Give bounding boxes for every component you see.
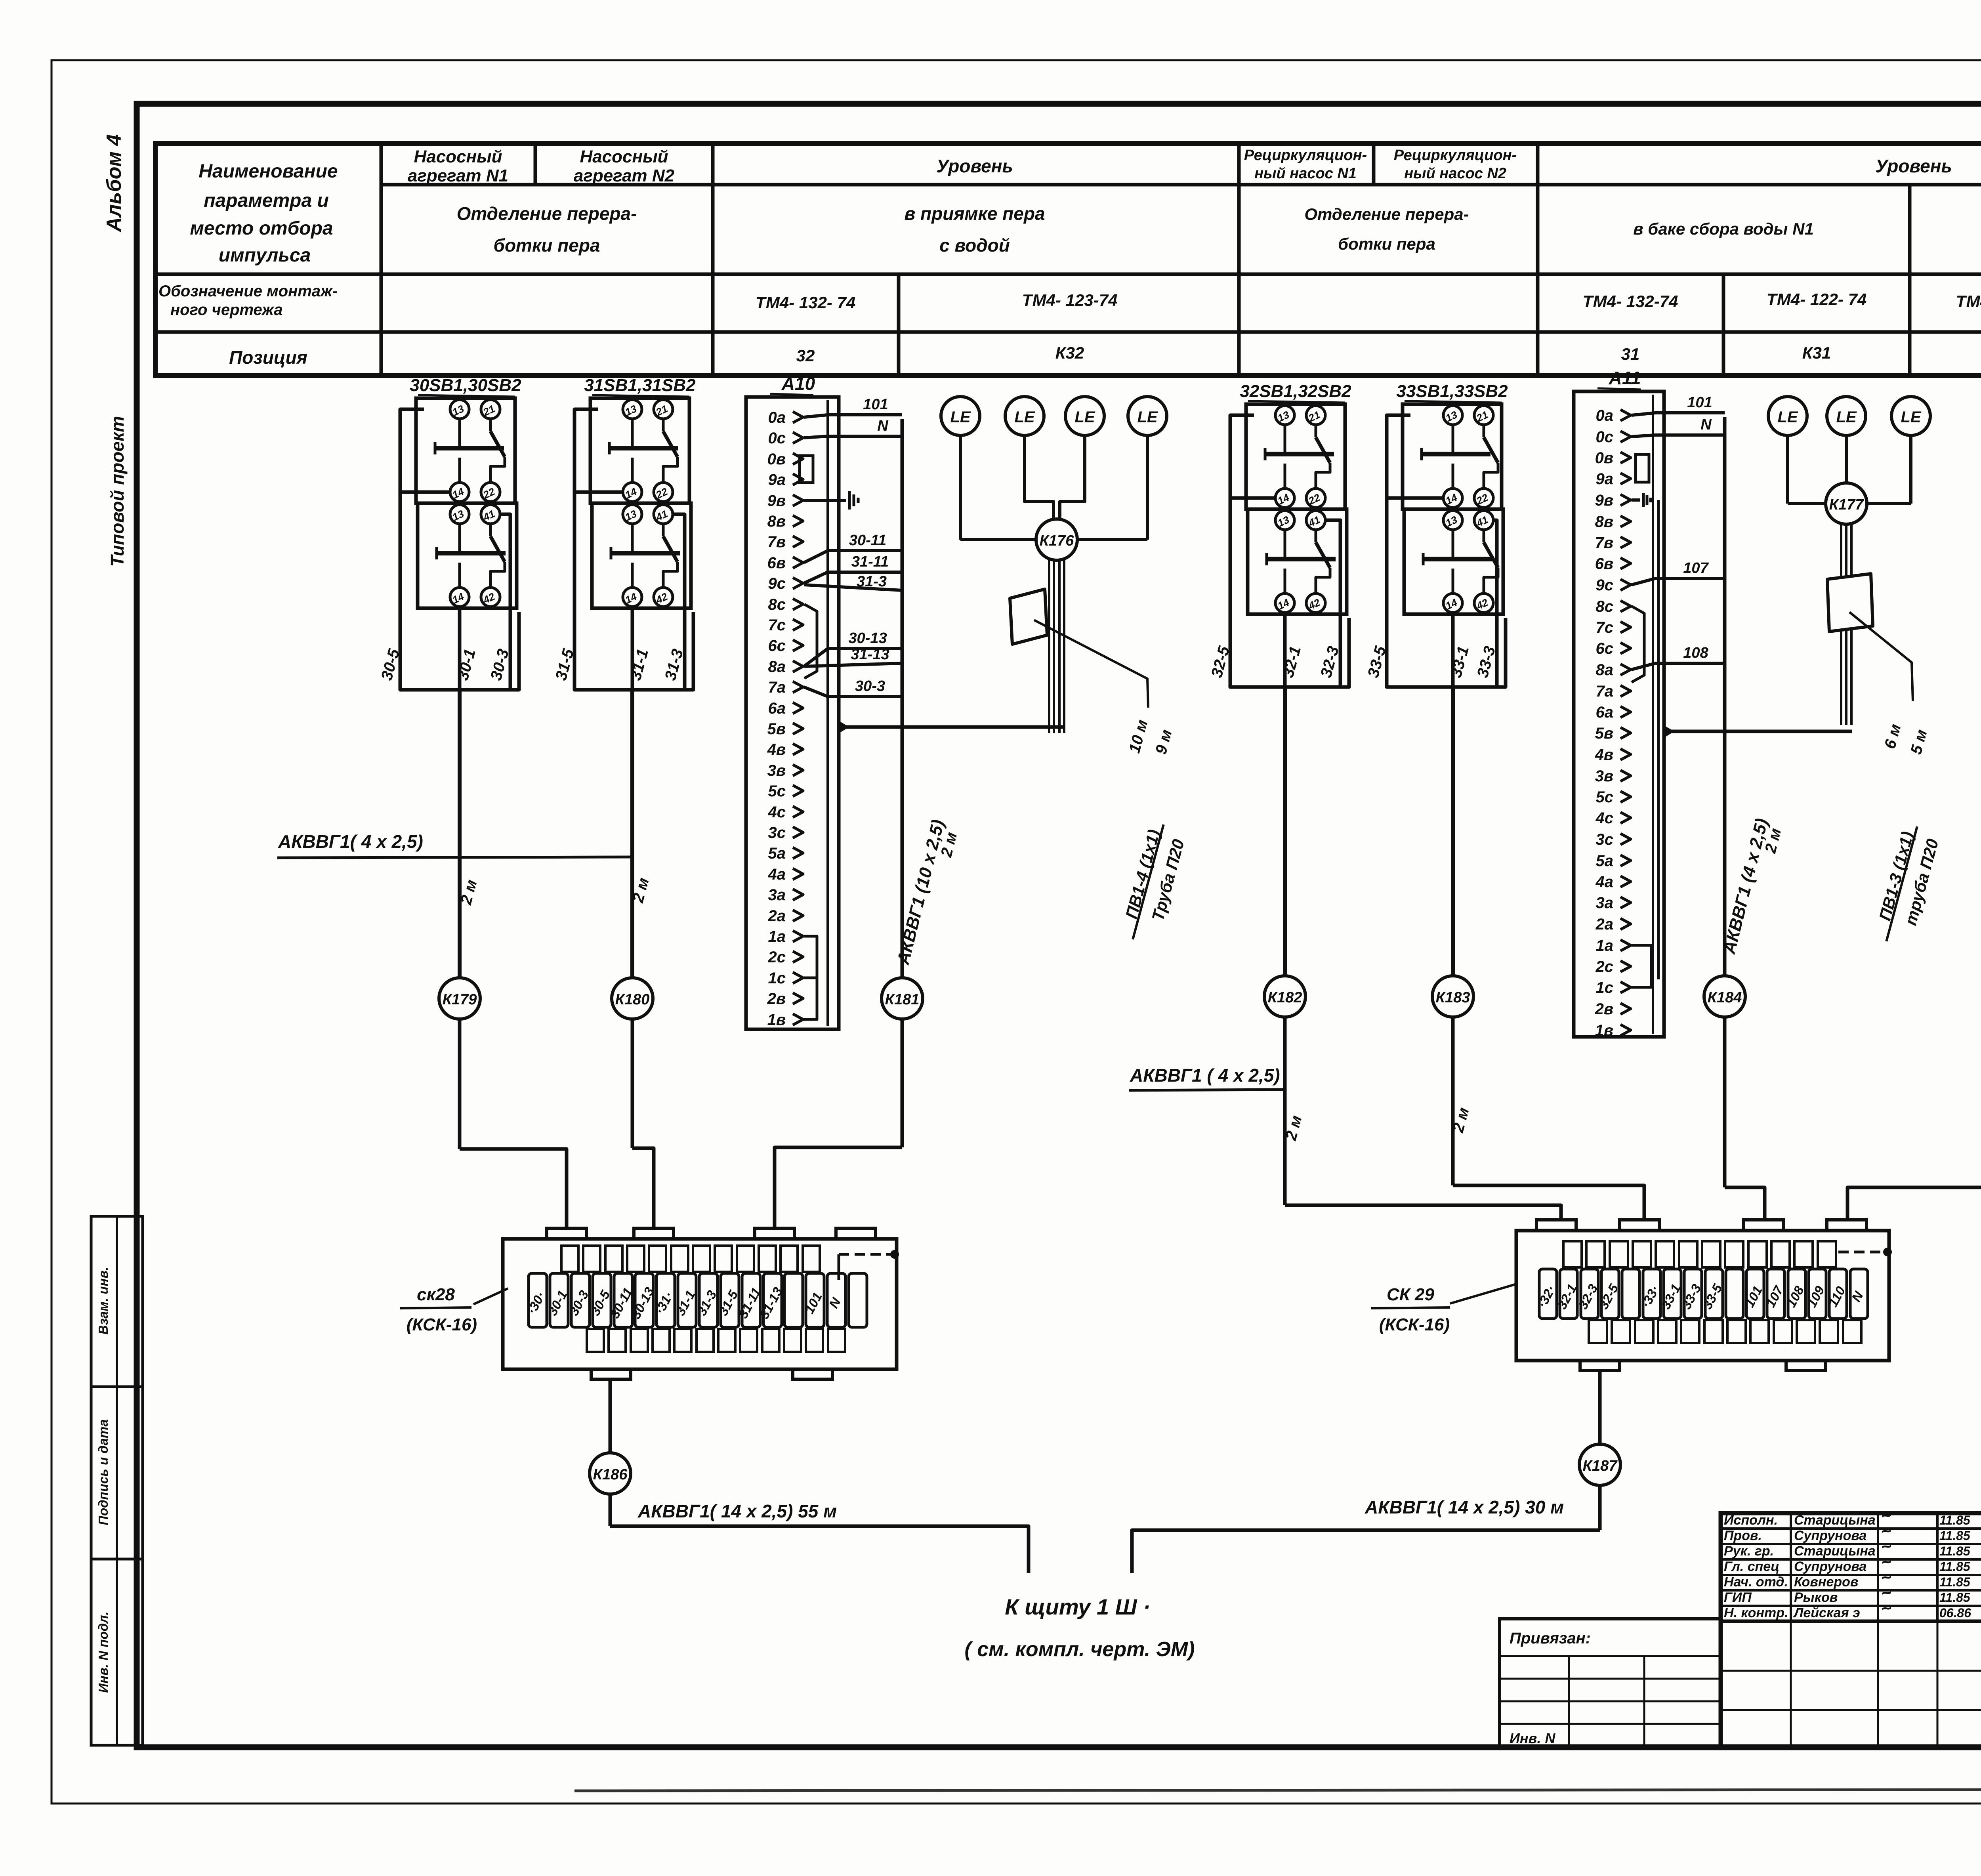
svg-text:Рыков: Рыков [1794,1590,1838,1605]
svg-text:4a: 4a [1595,873,1614,891]
svg-text:31SB1,31SB2: 31SB1,31SB2 [584,376,696,395]
svg-text:9c: 9c [768,575,786,592]
svg-text:К щиту 1 Ш ·: К щиту 1 Ш · [1005,1594,1150,1619]
svg-text:32SB1,32SB2: 32SB1,32SB2 [1240,382,1351,401]
svg-text:Ковнеров: Ковнеров [1794,1574,1858,1590]
terminal strip А10 bottom jumpers 1a-1c-1в [804,936,817,1019]
svg-text:Позиция: Позиция [229,347,307,368]
wire 107 from А11 row 9c [1632,578,1725,585]
switch box 32SB1,32SB2 unit 2 [1248,509,1347,614]
cable bus from А10 down to junction marker [901,419,904,978]
level sensor LE К176-1 [941,397,980,435]
svg-text:6в: 6в [1595,555,1613,573]
svg-text:0a: 0a [768,409,786,426]
svg-text:А11: А11 [1609,368,1641,388]
svg-text:Отделение перера-: Отделение перера- [457,203,637,224]
wire 31-11 from А10 row 9c [804,572,902,583]
svg-text:К31: К31 [1802,344,1831,362]
svg-text:Рециркуляцион-: Рециркуляцион- [1244,147,1367,164]
junction box СК28 screen link dot [838,1254,840,1280]
svg-text:4c: 4c [1595,809,1614,827]
svg-text:101: 101 [863,396,888,413]
svg-text:ТМ4- 123-74: ТМ4- 123-74 [1022,291,1118,309]
wire 33-5 from 33SB1,33SB2 [1387,496,1443,500]
svg-text:ГИП: ГИП [1724,1590,1752,1605]
cable marker К184 [1704,976,1745,1017]
svg-text:( см. компл. черт. ЭМ): ( см. компл. черт. ЭМ) [964,1638,1195,1661]
level sensor LE К176-3 [1065,397,1104,435]
svg-text:4в: 4в [1595,746,1613,763]
svg-text:33-1: 33-1 [1447,644,1472,679]
conduit symbol below К177 [1827,574,1873,632]
svg-text:33SB1,33SB2: 33SB1,33SB2 [1396,382,1508,401]
svg-text:Обозначение монтаж-: Обозначение монтаж- [158,282,338,300]
svg-text:параметра и: параметра и [204,190,329,211]
svg-text:30SB1,30SB2: 30SB1,30SB2 [410,376,521,395]
svg-text:33-3: 33-3 [1679,1282,1704,1312]
level sensor LE К177-3 [1891,397,1930,435]
svg-text:7в: 7в [767,533,786,551]
svg-text:8a: 8a [768,658,786,676]
svg-text:Насосный: Насосный [580,147,668,166]
svg-text:8c: 8c [1596,598,1614,615]
svg-text:импульса: импульса [219,245,311,266]
svg-text:31-11: 31-11 [851,553,889,570]
svg-text:ного чертежа: ного чертежа [170,301,282,319]
svg-text:11.85: 11.85 [1939,1559,1971,1574]
switch box 32SB1,32SB2 unit 1 [1246,404,1345,509]
svg-text:Супрунова: Супрунова [1794,1528,1866,1543]
svg-text:11.85: 11.85 [1939,1575,1971,1589]
svg-text:11.85: 11.85 [1939,1513,1971,1527]
svg-text:К187: К187 [1583,1458,1618,1474]
svg-text:9a: 9a [768,471,786,489]
cable bus from А11 down to junction marker [1723,417,1727,976]
svg-text:1в: 1в [1595,1022,1613,1039]
cable bundle below К176 [1048,560,1050,733]
terminal strip А10 jumper 8c-7a [804,604,817,678]
svg-text:11.85: 11.85 [1939,1529,1971,1543]
svg-text:Подпись и дата: Подпись и дата [96,1419,111,1525]
svg-text:0c: 0c [768,429,786,447]
svg-text:К179: К179 [443,991,477,1008]
svg-text:Лейская э: Лейская э [1793,1605,1860,1620]
svg-text:ный насос N2: ный насос N2 [1404,165,1506,182]
svg-text:Исполн.: Исполн. [1724,1513,1778,1528]
cable marker К182 [1264,976,1305,1017]
svg-text:Старицына: Старицына [1794,1513,1876,1528]
svg-text:Насосный: Насосный [414,147,502,166]
svg-text:LE: LE [1836,408,1857,426]
wire N from А11 row 0c [1632,435,1725,437]
wire 32-3 from 32SB1,32SB2 [1325,520,1340,687]
wire 30-3 from 30SB1,30SB2 [500,514,510,690]
svg-text:32-1: 32-1 [1279,644,1304,679]
svg-text:7a: 7a [768,679,786,696]
svg-text:ТМ4- 132-74: ТМ4- 132-74 [1583,292,1678,311]
svg-text:33-5: 33-5 [1700,1281,1725,1311]
svg-text:ботки пера: ботки пера [1338,235,1435,253]
junction at row 5в of А10 [839,721,849,733]
terminal strip А11 jumper 0в-9a [1636,454,1649,482]
conduit symbol below К176 [1010,589,1047,644]
svg-text:в баке сбора воды N1: в баке сбора воды N1 [1633,219,1814,238]
svg-text:108: 108 [1683,645,1708,661]
wire 31-3 from 31SB1,31SB2 [673,514,685,690]
wire from СК29 down through К187 [1598,1370,1602,1444]
svg-text:Наименование: Наименование [198,161,338,182]
switch box 33SB1,33SB2 enclosure [1387,415,1506,687]
wire from 33SB down through К183 [1451,687,1455,976]
svg-text:1в: 1в [767,1011,786,1029]
svg-text:0c: 0c [1596,428,1614,446]
svg-text:5c: 5c [1596,788,1614,806]
junction box СК29 screen link dot [1838,1251,1884,1254]
cable АКВВГ1(14х2,5) 55м to panel [610,1526,1029,1573]
svg-text:ный насос N1: ный насос N1 [1254,165,1357,182]
svg-text:N: N [1700,416,1712,433]
left margin attribute box Инв. N подл. [91,1559,143,1745]
svg-text:5a: 5a [1596,852,1614,870]
svg-text:Уровень: Уровень [936,156,1013,176]
svg-text:7c: 7c [1596,619,1614,636]
svg-text:Взам. инв.: Взам. инв. [96,1267,111,1335]
svg-text:(КСК-16): (КСК-16) [1379,1315,1450,1334]
switch box 30SB1,30SB2 enclosure [400,409,519,690]
level sensor LE К176-4 [1128,397,1167,435]
svg-text:ТМ4- 132-74: ТМ4- 132-74 [1956,292,1981,311]
cable АКВВГ1(14х2,5) 30м to panel [1132,1530,1600,1573]
svg-text:7a: 7a [1596,683,1614,700]
svg-text:Пров.: Пров. [1724,1528,1762,1543]
left margin attribute box Подпись и дата [91,1387,143,1559]
cable marker К180 [612,978,653,1019]
svg-text:Старицына: Старицына [1794,1544,1876,1559]
svg-text:АКВВГ1( 14 х 2,5) 30 м: АКВВГ1( 14 х 2,5) 30 м [1365,1497,1564,1517]
svg-text:6c: 6c [768,637,786,655]
conduit leader line К176 [1034,620,1148,708]
wire from 32SB down through К182 [1283,687,1287,976]
wire 31-1 from 31SB1,31SB2 [631,607,634,690]
parameter table grid [155,143,1981,376]
svg-text:31-13: 31-13 [851,646,889,663]
level sensor LE К177-1 [1768,397,1807,435]
wire from СК28 down through К186 [609,1379,612,1452]
terminal strip А11 inner vertical link [1657,500,1660,979]
svg-text:К181: К181 [885,991,920,1008]
svg-text:Н. контр.: Н. контр. [1724,1605,1788,1620]
svg-text:9в: 9в [1595,492,1613,509]
svg-text:2в: 2в [1595,1000,1613,1018]
junction marker К177 [1786,435,1789,504]
junction at row 5в of А11 [1664,725,1674,738]
svg-text:ТМ4- 122- 74: ТМ4- 122- 74 [1767,290,1867,309]
svg-text:LE: LE [1014,408,1035,426]
ground from А10 row 9в [804,499,846,502]
svg-text:3a: 3a [1596,894,1614,912]
terminal strip А10 box [746,397,839,1029]
svg-text:06.86: 06.86 [1939,1606,1971,1620]
svg-text:9a: 9a [1596,470,1614,488]
wire 30-1 from 30SB1,30SB2 [458,607,462,690]
wire from 30SB down through К179 [458,690,462,978]
svg-text:5c: 5c [768,782,786,800]
svg-text:101: 101 [1687,394,1712,411]
wire 30-13 from А10 row 8a [804,649,902,666]
svg-text:0в: 0в [1595,449,1613,467]
junction marker К176 [959,435,962,540]
svg-text:агрегат N1: агрегат N1 [408,166,508,185]
svg-text:1c: 1c [768,969,786,987]
svg-text:СК 29: СК 29 [1387,1285,1435,1304]
svg-text:5в: 5в [767,720,786,738]
svg-text:33-1: 33-1 [1658,1282,1683,1312]
svg-text:11.85: 11.85 [1939,1590,1971,1605]
wire 108 from А11 row 8a [1632,663,1725,670]
svg-text:Типовой проект: Типовой проект [107,416,128,567]
switch box 30SB1,30SB2 unit 2 [418,503,517,608]
svg-text:место отбора: место отбора [190,218,333,239]
svg-text:2a: 2a [768,907,786,925]
svg-text:2a: 2a [1595,916,1614,933]
svg-text:Супрунова: Супрунова [1794,1559,1866,1574]
wire 101 from А11 row 0a [1632,413,1725,415]
svg-text:7c: 7c [768,616,786,634]
left margin attribute box Взам. инв. [91,1216,143,1387]
svg-text:ск28: ск28 [417,1285,455,1304]
svg-text:К180: К180 [615,991,650,1008]
svg-text:Инв. N подл.: Инв. N подл. [96,1611,111,1693]
switch box 32SB1,32SB2 enclosure [1230,415,1349,687]
switch box 31SB1,31SB2 unit 1 [590,398,689,503]
svg-text:4a: 4a [768,866,786,883]
svg-text:9 м: 9 м [1152,728,1176,756]
svg-text:30-1: 30-1 [454,647,479,682]
switch box 33SB1,33SB2 unit 1 [1403,404,1502,509]
wire 33-1 from 33SB1,33SB2 [1451,613,1455,687]
level sensor LE К177-2 [1827,397,1866,435]
svg-text:Уровень: Уровень [1875,156,1952,176]
ground from А11 row 9в [1632,498,1640,502]
svg-text:4c: 4c [768,803,786,821]
svg-text:31-3: 31-3 [857,573,887,590]
svg-text:А10: А10 [781,373,815,394]
svg-text:32-3: 32-3 [1575,1282,1601,1312]
svg-text:2c: 2c [1595,958,1614,975]
svg-text:3c: 3c [768,824,786,842]
svg-text:3в: 3в [767,762,786,779]
svg-text:1a: 1a [768,928,786,945]
svg-text:Инв. N: Инв. N [1510,1730,1555,1746]
svg-text:32-5: 32-5 [1596,1281,1621,1311]
svg-text:3a: 3a [768,886,786,904]
cable marker К179 [439,978,480,1019]
svg-text:5a: 5a [768,845,786,862]
wire 31-3 from А10 row 9c [804,585,902,590]
junction box СК29 (КСК-16) [1516,1231,1889,1361]
svg-text:АКВВГ1 ( 4 х 2,5): АКВВГ1 ( 4 х 2,5) [1130,1065,1280,1086]
wire 32-5 from 32SB1,32SB2 [1230,496,1275,500]
svg-text:К184: К184 [1708,989,1742,1006]
svg-text:5в: 5в [1595,725,1613,742]
svg-text:3c: 3c [1596,831,1614,848]
svg-text:8a: 8a [1596,661,1614,679]
svg-text:31-1: 31-1 [627,647,652,682]
svg-text:АКВВГ1 (4 х 2,5): АКВВГ1 (4 х 2,5) [1720,817,1772,956]
svg-text:LE: LE [950,408,971,426]
svg-text:2c: 2c [768,948,786,966]
terminal strip А10 jumper 0в-9a [800,456,813,483]
cable marker К183 [1432,976,1473,1017]
svg-text:6в: 6в [767,554,786,572]
svg-text:К176: К176 [1040,532,1074,549]
svg-text:К182: К182 [1268,989,1302,1006]
svg-text:ТМ4- 132- 74: ТМ4- 132- 74 [756,293,856,312]
svg-text:8в: 8в [1595,513,1613,531]
svg-text:1a: 1a [1596,937,1614,954]
wire 30-3 from А10 row 7a [804,687,902,697]
switch box 31SB1,31SB2 unit 2 [592,503,691,608]
terminal strip А11 box [1574,391,1664,1037]
wire N from А10 row 0c [804,436,902,438]
svg-text:К177: К177 [1829,496,1865,513]
svg-text:агрегат N2: агрегат N2 [574,166,675,185]
wire 31-13 from А10 row 8a [804,663,902,666]
svg-text:1c: 1c [1596,979,1614,996]
wire 33-3 from 33SB1,33SB2 [1493,520,1497,687]
svg-text:6a: 6a [768,700,786,717]
svg-text:К32: К32 [1055,344,1084,362]
svg-text:4в: 4в [767,741,786,758]
svg-text:N: N [826,1295,844,1310]
svg-text:30-11: 30-11 [849,532,886,549]
junction box СК28 (КСК-16) [503,1239,897,1369]
switch box 31SB1,31SB2 enclosure [574,409,693,690]
svg-text:К183: К183 [1436,989,1470,1006]
switch box 30SB1,30SB2 unit 1 [416,398,515,503]
svg-text:Рук. гр.: Рук. гр. [1724,1544,1774,1559]
svg-text:10 м: 10 м [1126,718,1151,755]
svg-text:6c: 6c [1596,640,1614,657]
cable marker К187 [1579,1444,1620,1485]
svg-text:9c: 9c [1596,576,1614,594]
wire 31-5 from 31SB1,31SB2 [574,490,623,494]
terminal strip А11 jumper 8c-7a [1632,606,1644,682]
svg-text:30-13: 30-13 [848,630,887,647]
svg-text:107: 107 [1683,560,1709,576]
svg-text:N: N [877,418,889,434]
svg-text:6a: 6a [1596,704,1614,721]
svg-text:Гл. спец: Гл. спец [1724,1559,1779,1574]
svg-text:8в: 8в [767,513,786,530]
svg-text:5 м: 5 м [1907,728,1931,756]
svg-text:30-3: 30-3 [855,678,885,695]
terminal strip А11 bottom jumpers 1a-2c-1c [1632,945,1651,987]
cable marker К186 [590,1453,631,1494]
svg-text:9в: 9в [767,492,786,510]
svg-text:LE: LE [1074,408,1095,426]
svg-text:АКВВГ1( 4 х 2,5): АКВВГ1( 4 х 2,5) [278,831,423,852]
title block grid [1721,1513,1981,1747]
svg-text:6 м: 6 м [1881,722,1905,751]
extra bottom border smudge line [574,1789,1981,1791]
svg-text:8c: 8c [768,596,786,613]
svg-text:11.85: 11.85 [1939,1544,1971,1558]
svg-text:Отделение перера-: Отделение перера- [1304,205,1469,223]
svg-text:К186: К186 [593,1466,628,1483]
wire 30-5 from 30SB1,30SB2 [400,490,450,494]
svg-text:Привязан:: Привязан: [1510,1630,1591,1647]
svg-text:31: 31 [1621,345,1640,363]
svg-text:3в: 3в [1595,767,1613,785]
wire 101 from А10 row 0a [804,415,902,417]
svg-text:АКВВГ1( 14 х 2,5) 55 м: АКВВГ1( 14 х 2,5) 55 м [637,1501,837,1521]
title block Привязан box [1500,1619,1721,1747]
svg-text:7в: 7в [1595,534,1613,552]
wire 32-1 from 32SB1,32SB2 [1283,613,1287,687]
svg-text:32: 32 [796,346,815,365]
cable bundle below К177 [1840,524,1842,725]
svg-text:LE: LE [1901,408,1921,426]
svg-text:Альбом 4: Альбом 4 [103,134,126,233]
wire 30-11 from А10 row 6в [804,551,902,563]
svg-text:32-1: 32-1 [1554,1282,1580,1312]
svg-text:0в: 0в [767,450,786,468]
conduit leader line К177 [1849,612,1913,701]
svg-text:Нач. отд.: Нач. отд. [1724,1574,1788,1590]
cable marker К181 [882,978,923,1019]
svg-text:LE: LE [1777,408,1798,426]
svg-text:LE: LE [1137,408,1158,426]
switch box 33SB1,33SB2 unit 2 [1404,509,1503,614]
svg-text:(КСК-16): (КСК-16) [407,1315,477,1334]
svg-text:ботки пера: ботки пера [493,235,600,256]
svg-text:с водой: с водой [939,235,1010,256]
level sensor LE К176-2 [1005,397,1044,435]
svg-text:Рециркуляцион-: Рециркуляцион- [1394,147,1517,164]
svg-text:2в: 2в [767,990,786,1008]
svg-text:в приямке пера: в приямке пера [904,203,1045,224]
wire from 31SB down through К180 [630,690,634,978]
svg-text:0a: 0a [1596,407,1614,424]
